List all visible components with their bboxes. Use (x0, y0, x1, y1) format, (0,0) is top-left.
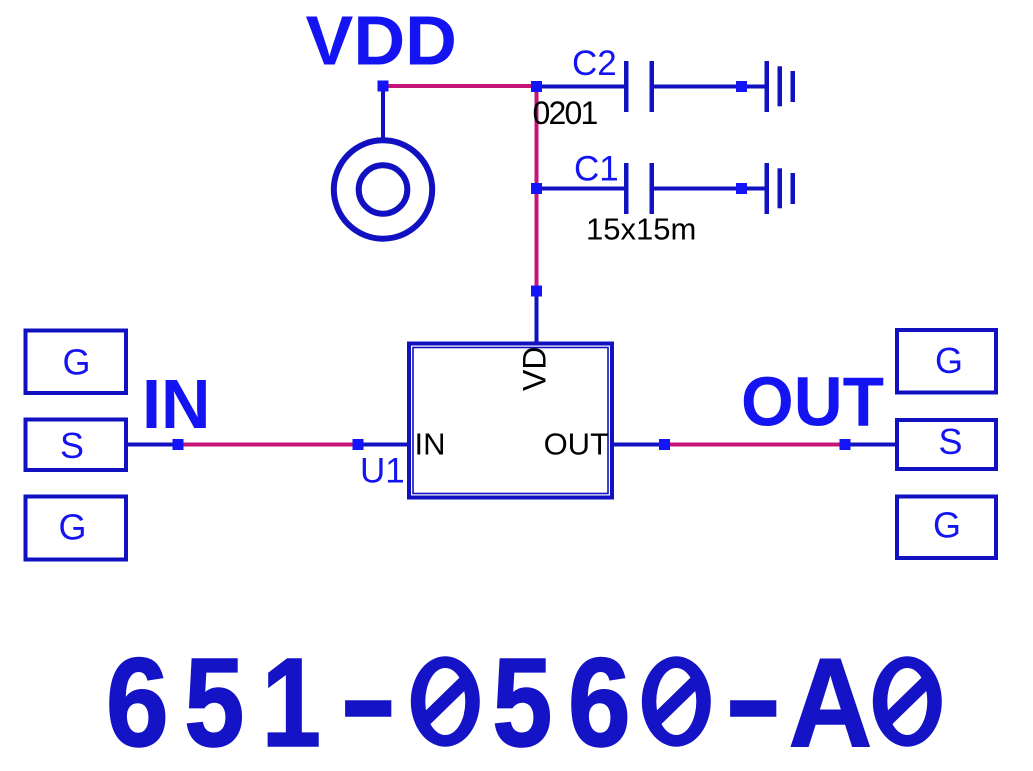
wire U1 OUT pin to junction (612, 443, 665, 447)
svg-text:VD: VD (517, 347, 553, 391)
svg-text:G: G (933, 505, 961, 546)
node OUT junction B (840, 439, 851, 450)
svg-text:5: 5 (184, 633, 244, 771)
node C2 junction (531, 81, 542, 92)
wire OUT net magenta (665, 443, 846, 447)
title glyph slashed zero (873, 656, 942, 746)
svg-text:U1: U1 (360, 452, 405, 491)
svg-text:-: - (339, 628, 397, 768)
svg-text:A: A (788, 632, 872, 771)
wire IN net magenta (178, 443, 358, 447)
wire C2 right to ground (654, 85, 765, 89)
pad S left (26, 420, 127, 471)
svg-text:6: 6 (106, 633, 169, 771)
svg-text:IN: IN (415, 427, 446, 462)
svg-text:1: 1 (262, 632, 322, 771)
node C1 ground junction (736, 183, 747, 194)
svg-text:G: G (62, 342, 90, 383)
svg-text:OUT: OUT (544, 427, 610, 462)
svg-text:5: 5 (492, 633, 552, 771)
svg-text:-: - (724, 628, 782, 768)
svg-text:15x15m: 15x15m (586, 212, 696, 247)
node OUT junction A (659, 439, 670, 450)
node IN junction B (353, 439, 364, 450)
svg-text:G: G (58, 507, 86, 548)
node C1 junction (531, 183, 542, 194)
wire C2 left (537, 85, 625, 89)
svg-text:C1: C1 (574, 150, 619, 189)
wire VDD net magenta horizontal (383, 84, 537, 88)
pad G left top (26, 331, 127, 394)
svg-text:G: G (935, 340, 963, 381)
title glyph slashed zero (411, 656, 480, 746)
power symbol VDD circle (334, 140, 432, 238)
wire S-pad to junction (left) (128, 443, 178, 447)
svg-text:C2: C2 (572, 44, 617, 83)
capacitor C2 plates (624, 61, 629, 112)
wire C1 right to ground (654, 187, 765, 191)
pad G right bottom (897, 497, 996, 559)
wire VDD net magenta vertical (535, 86, 539, 287)
svg-text:6: 6 (568, 633, 631, 771)
pad G left bottom (26, 497, 127, 560)
wire VD pin stub (535, 291, 539, 343)
svg-text:0201: 0201 (533, 95, 598, 131)
node C2 ground junction (736, 81, 747, 92)
wire junction to S-pad (right) (845, 443, 895, 447)
svg-text:S: S (938, 421, 962, 462)
node VD junction (531, 286, 542, 297)
IC U1 outer box (409, 344, 612, 498)
svg-text:VDD: VDD (306, 2, 457, 80)
ground symbol bottom (765, 163, 770, 214)
svg-text:S: S (60, 425, 84, 466)
svg-text:IN: IN (142, 365, 211, 443)
wire C1 left (537, 187, 625, 191)
ground symbol top (765, 61, 770, 112)
svg-text:OUT: OUT (741, 363, 884, 441)
title glyph slashed zero (642, 656, 711, 746)
node IN junction A (173, 439, 184, 450)
pad S right (897, 420, 996, 469)
wire junction to U1 IN pin (358, 443, 409, 447)
IC U1 inner box (413, 348, 608, 494)
pad G right top (897, 330, 996, 393)
wire VDD symbol stub (381, 86, 385, 138)
capacitor C1 plates (624, 163, 629, 214)
node VDD junction (378, 81, 389, 92)
